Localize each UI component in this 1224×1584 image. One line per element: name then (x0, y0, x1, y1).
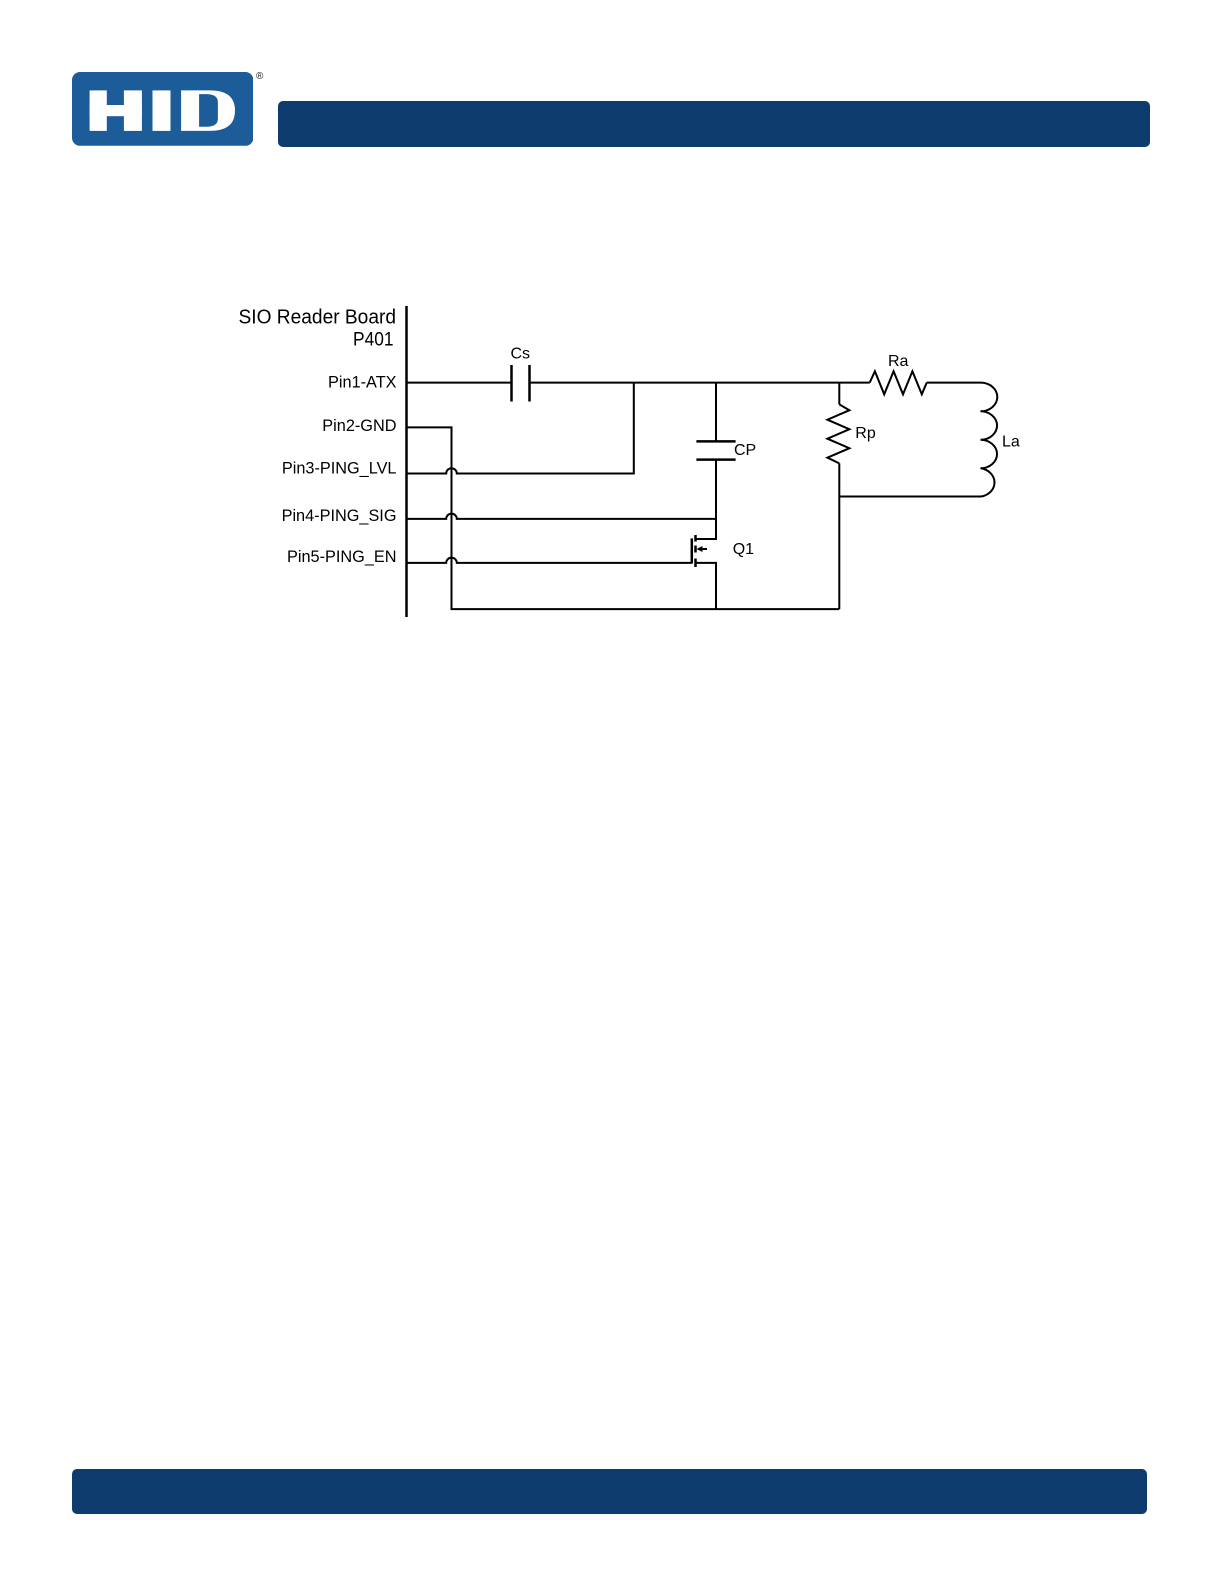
svg-text:CP: CP (734, 442, 756, 459)
svg-text:P401: P401 (353, 329, 394, 350)
svg-text:Q1: Q1 (733, 541, 754, 558)
svg-text:SIO Reader Board: SIO Reader Board (239, 306, 397, 329)
svg-text:Pin4-PING_SIG: Pin4-PING_SIG (282, 507, 397, 525)
svg-text:Pin3-PING_LVL: Pin3-PING_LVL (282, 459, 397, 477)
svg-text:Cs: Cs (511, 346, 531, 363)
svg-text:Rp: Rp (855, 425, 876, 442)
svg-text:La: La (1002, 433, 1020, 450)
svg-text:Pin5-PING_EN: Pin5-PING_EN (287, 548, 397, 566)
svg-text:Ra: Ra (888, 353, 909, 370)
svg-text:Pin1-ATX: Pin1-ATX (328, 373, 397, 391)
svg-text:Pin2-GND: Pin2-GND (322, 417, 396, 435)
